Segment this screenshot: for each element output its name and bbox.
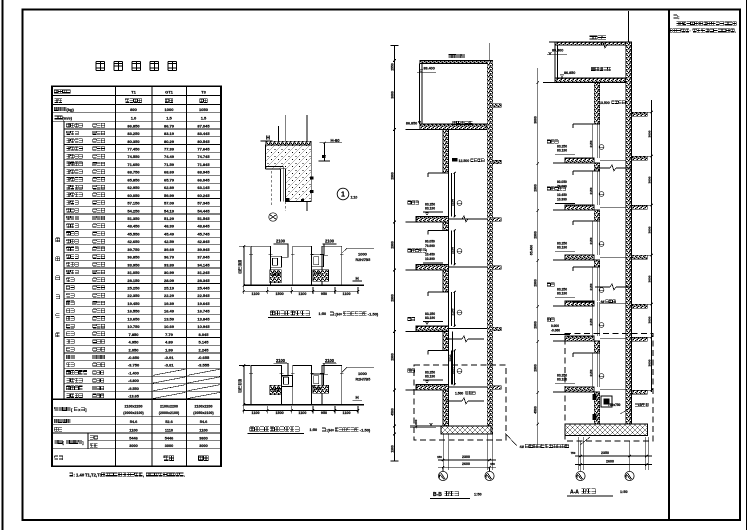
svg-text:1.500: 1.500: [455, 392, 463, 396]
svg-text:57.150: 57.150: [127, 201, 140, 206]
svg-text:2150: 2150: [451, 308, 455, 315]
svg-text:5446: 5446: [129, 436, 137, 440]
plan bottom dimension line: [244, 409, 358, 411]
svg-text:51.350: 51.350: [127, 216, 140, 221]
plan baseline wall line: [244, 404, 364, 406]
A-A floor slab 1: [565, 205, 594, 210]
svg-text:-1.400: -1.400: [128, 371, 139, 375]
svg-text:22.545: 22.545: [197, 293, 210, 298]
svg-text:750x750: 750x750: [608, 403, 621, 407]
svg-text:19.39: 19.39: [164, 301, 175, 306]
plan bottom dimension line: [244, 290, 358, 292]
table row 27: 四层: [64, 329, 221, 331]
svg-text:(kg): (kg): [67, 107, 75, 112]
table summary rows: [52, 398, 221, 400]
svg-text:3000: 3000: [647, 359, 651, 366]
svg-text:77.645: 77.645: [197, 147, 210, 152]
B-B door frame 2~27层: [428, 231, 449, 235]
svg-text:25.250: 25.250: [127, 286, 140, 291]
svg-text:1:10: 1:10: [351, 196, 358, 200]
svg-text:77.39: 77.39: [164, 147, 175, 152]
svg-text:750: 750: [571, 451, 576, 455]
svg-text:(2000x2100): (2000x2100): [123, 411, 144, 415]
svg-text:-0.655: -0.655: [198, 355, 210, 360]
svg-text:2900: 2900: [534, 231, 538, 239]
pit note leader left: [505, 433, 517, 446]
svg-text:10.450: 10.450: [557, 193, 567, 197]
svg-text:65.79: 65.79: [164, 177, 175, 182]
svg-text:57.09: 57.09: [164, 201, 175, 206]
svg-text:2150: 2150: [451, 247, 455, 254]
svg-text:2600: 2600: [606, 459, 614, 463]
svg-text:57.345: 57.345: [197, 201, 210, 206]
svg-text:71.650: 71.650: [127, 162, 140, 167]
svg-text:1.5: 1.5: [201, 116, 207, 121]
svg-text:(2050x2100): (2050x2100): [193, 411, 214, 415]
table row 23: 八层: [64, 298, 221, 300]
svg-text:22.350: 22.350: [127, 293, 140, 298]
svg-text:3000: 3000: [647, 275, 651, 282]
svg-text:71.59: 71.59: [164, 162, 175, 167]
svg-text:2350: 2350: [601, 451, 609, 455]
svg-text:3000: 3000: [199, 444, 207, 448]
A-A machine floor slab: [555, 78, 626, 83]
svg-text:54.6: 54.6: [200, 419, 208, 424]
table row 25: 六层: [64, 313, 221, 315]
svg-text:3000: 3000: [165, 444, 173, 448]
svg-text:4.89: 4.89: [165, 340, 174, 345]
table row 13: 十八层: [64, 221, 221, 223]
svg-text:83.445: 83.445: [197, 131, 210, 136]
svg-text:1:50: 1:50: [310, 428, 318, 432]
svg-text:25.445: 25.445: [197, 286, 210, 291]
svg-text:: 1.4#: : 1.4#: [74, 473, 85, 478]
A-A left dim line: [537, 68, 539, 448]
B-B right side stub upper: [493, 104, 502, 108]
svg-text:2900: 2900: [534, 321, 538, 329]
B-B left wall segment above floor 2层: [443, 270, 449, 292]
svg-text:950: 950: [321, 292, 327, 296]
svg-text:86.79: 86.79: [164, 123, 175, 128]
svg-text:42.845: 42.845: [197, 239, 210, 244]
svg-text:0.000: 0.000: [551, 324, 559, 328]
B-B slab1 break line to right wall: [448, 218, 462, 220]
svg-text:B-B: B-B: [433, 492, 442, 498]
A-A door frame 0: [573, 124, 594, 128]
svg-text:2100: 2100: [325, 358, 335, 363]
svg-text:·: ·: [690, 29, 691, 34]
B-B floor slab 首层: [416, 385, 449, 391]
svg-text:2150: 2150: [589, 237, 593, 244]
plan shaft rect 1: [251, 365, 282, 404]
A-A right floor stub at y=112: [632, 112, 648, 116]
plan door sill detail A: [270, 270, 282, 283]
B-B wall below last floor: [443, 390, 449, 426]
B-B left wall segment above floor 2~27层: [443, 222, 449, 231]
table row 15: 十六层: [64, 236, 221, 238]
svg-text:66.045: 66.045: [197, 177, 210, 182]
title-block divider: [668, 10, 670, 521]
svg-text:1500: 1500: [275, 292, 283, 296]
table row 4: 二十七层: [64, 151, 221, 153]
B-B pit floor slab: [441, 426, 491, 434]
svg-text:54.250: 54.250: [127, 208, 140, 213]
A-A floor name 2~27层: [547, 187, 565, 190]
svg-text:54.445: 54.445: [197, 208, 210, 213]
B-B left dim line: [394, 46, 396, 462]
svg-text:R2H/7B5: R2H/7B5: [356, 258, 371, 262]
svg-text:1: 1: [341, 192, 345, 199]
svg-text:2600: 2600: [462, 462, 470, 466]
svg-text:2.050: 2.050: [128, 347, 139, 352]
svg-text:65.850: 65.850: [127, 177, 140, 182]
table row 17: 十四层: [64, 252, 221, 254]
outer left trim line: [2, 0, 4, 530]
svg-text:83.190: 83.190: [425, 316, 435, 320]
svg-text:12.500: 12.500: [459, 159, 470, 163]
elevator table grid: [52, 86, 221, 466]
svg-text:48.645: 48.645: [197, 224, 210, 229]
svg-text:4#: 4#: [601, 300, 605, 304]
svg-text:1100: 1100: [343, 292, 351, 296]
svg-text:10.945: 10.945: [197, 324, 210, 329]
svg-text:2150: 2150: [589, 318, 593, 325]
svg-text:28.150: 28.150: [127, 278, 140, 283]
svg-text:42.650: 42.650: [127, 239, 140, 244]
svg-text:-9.550: -9.550: [128, 387, 139, 391]
B-B roof slab: [420, 61, 493, 64]
svg-text:T1: T1: [131, 90, 136, 95]
svg-text:34.145: 34.145: [197, 262, 210, 267]
svg-text:79.990: 79.990: [425, 244, 435, 248]
svg-text:30.99: 30.99: [164, 270, 175, 275]
B-B bottom dims: [438, 459, 496, 461]
A-A right floor stub at y=255: [632, 255, 648, 259]
A-A dashed detail box: [565, 334, 653, 442]
svg-text:(2000x2100): (2000x2100): [159, 411, 180, 415]
table row 35: 电梯底坑: [64, 391, 221, 393]
svg-text:4500: 4500: [390, 408, 394, 416]
plan door sill detail B: [313, 270, 329, 282]
table body floor rows: [63, 121, 65, 399]
svg-text:68.945: 68.945: [197, 170, 210, 175]
svg-text:19.645: 19.645: [197, 301, 210, 306]
svg-text:39.945: 39.945: [197, 247, 210, 252]
svg-text:71.845: 71.845: [197, 162, 210, 167]
B-B roof label: [448, 54, 465, 58]
svg-text:74.745: 74.745: [197, 154, 210, 159]
svg-text:-1.50): -1.50): [368, 312, 379, 317]
A-A right wall: [626, 42, 632, 424]
svg-text:3000: 3000: [647, 130, 651, 137]
B-B machine floor slab: [420, 124, 487, 130]
svg-text:4500: 4500: [534, 406, 538, 414]
svg-text:83.190: 83.190: [557, 292, 567, 296]
svg-text:89.400: 89.400: [424, 66, 435, 70]
table row 22: 九层: [64, 290, 221, 292]
B-B door frame 2层: [428, 292, 449, 296]
A-A wall below last floor: [594, 392, 600, 424]
svg-text:1000: 1000: [358, 371, 368, 376]
A-A floor slab 5: [565, 387, 594, 392]
A-A floor name 28层: [547, 140, 558, 143]
svg-text:25.19: 25.19: [164, 286, 175, 291]
A-A floor slab 4: [565, 336, 594, 341]
svg-text:5446: 5446: [165, 436, 173, 440]
A-A right floor stub at y=205: [632, 205, 648, 209]
svg-text:83.190: 83.190: [557, 246, 567, 250]
plan right leader labels: [342, 367, 374, 372]
svg-text:80.350: 80.350: [127, 139, 140, 144]
svg-text:63.145: 63.145: [197, 185, 210, 190]
svg-text:39.750: 39.750: [127, 247, 140, 252]
svg-text:-1.50): -1.50): [360, 428, 371, 433]
table footnote: [69, 473, 73, 477]
svg-text:16.49: 16.49: [164, 309, 175, 314]
svg-text:65.400: 65.400: [530, 245, 534, 255]
B-B right side stub machine level: [493, 160, 502, 164]
svg-text:1100: 1100: [252, 292, 260, 296]
table row 18: 十三层: [64, 259, 221, 261]
svg-text:54.6: 54.6: [130, 419, 138, 424]
svg-text:2100x2200: 2100x2200: [125, 405, 143, 409]
svg-text:80.545: 80.545: [197, 139, 210, 144]
svg-text:51.545: 51.545: [197, 216, 210, 221]
svg-text:51.29: 51.29: [164, 216, 175, 221]
detail 1 wall lines above: [278, 126, 280, 141]
svg-text:1000: 1000: [165, 107, 175, 112]
svg-text:3000: 3000: [647, 316, 651, 323]
table row 16: 十五层: [64, 244, 221, 246]
svg-text:45.745: 45.745: [197, 231, 210, 236]
B-B floor slab 2层: [416, 326, 449, 332]
table row 9: 二十二层: [64, 190, 221, 192]
table row 7: 二十四层: [64, 174, 221, 176]
svg-text:1:50: 1:50: [620, 490, 628, 494]
svg-text:60.050: 60.050: [127, 193, 140, 198]
svg-text:2900: 2900: [534, 364, 538, 372]
notes block: [673, 15, 677, 19]
svg-text::(H=: :(H=: [326, 428, 335, 433]
svg-text:3000: 3000: [129, 444, 137, 448]
svg-text:83.190: 83.190: [425, 375, 435, 379]
A-A pit leader texts: [635, 403, 648, 406]
svg-text:45.550: 45.550: [127, 231, 140, 236]
A-A floor name 首层: [547, 318, 554, 321]
svg-text:2100x2200: 2100x2200: [195, 405, 213, 409]
B-B floor name 2~27层: [408, 249, 426, 252]
B-B door frame 首层: [428, 351, 449, 355]
svg-text:1100: 1100: [129, 427, 137, 432]
table vertical label column: [56, 238, 60, 242]
table row 8: 二十三层: [64, 182, 221, 184]
svg-text:8.045: 8.045: [198, 332, 209, 337]
B-B axis bubbles: [442, 467, 444, 471]
A-A shaft break lower: [595, 286, 610, 288]
A-A door frame 2: [573, 221, 594, 225]
B-B floor name 首层: [408, 369, 415, 372]
svg-text:68.750: 68.750: [127, 170, 140, 175]
svg-text:83.190: 83.190: [425, 207, 435, 211]
detail 1 corner walls: [266, 145, 312, 202]
svg-text:28.345: 28.345: [197, 278, 210, 283]
A-A left wall segment 0: [594, 83, 600, 125]
svg-text:2150: 2150: [451, 199, 455, 206]
svg-text:62.89: 62.89: [164, 185, 175, 190]
svg-text:2100: 2100: [325, 239, 335, 244]
A-A left wall segment 3: [594, 260, 600, 267]
table row 24: 七层: [64, 306, 221, 308]
B-B floor name 28层: [408, 201, 419, 204]
B-B axis line above: [489, 43, 491, 61]
A-A door frame 5: [573, 353, 594, 357]
A-A right floor stub at y=304: [632, 304, 648, 308]
svg-text:1100: 1100: [252, 411, 260, 415]
svg-text:-0.060: -0.060: [551, 328, 560, 332]
svg-text:39.69: 39.69: [164, 247, 175, 252]
svg-text:86.850: 86.850: [406, 122, 417, 126]
svg-text:37.045: 37.045: [197, 255, 210, 260]
svg-text:74.49: 74.49: [164, 154, 175, 159]
plan door sill detail B: [313, 385, 329, 393]
table row 12: 十九层: [64, 213, 221, 215]
table row 32: 一层: [64, 367, 221, 369]
svg-text:T3: T3: [201, 90, 206, 95]
A-A right floor stub at y=156: [632, 156, 648, 160]
svg-text:87.045: 87.045: [197, 123, 210, 128]
svg-text:77.450: 77.450: [127, 147, 140, 152]
plan baseline wall line: [244, 284, 364, 286]
svg-text:16.745: 16.745: [197, 309, 210, 314]
svg-text:68.69: 68.69: [164, 170, 175, 175]
table row 30: 夹层: [64, 352, 221, 354]
table row 19: 十二层: [64, 267, 221, 269]
svg-text:3000: 3000: [647, 226, 651, 233]
detail 1 top slab band: [266, 141, 312, 145]
A-A right floor stub at y=390: [632, 390, 648, 394]
svg-text:-4.800: -4.800: [128, 379, 139, 383]
svg-text:10.750: 10.750: [127, 324, 140, 329]
svg-text:86.850: 86.850: [564, 71, 575, 75]
svg-text:3000: 3000: [534, 116, 538, 124]
svg-text:10.69: 10.69: [164, 324, 175, 329]
svg-text:4.950: 4.950: [128, 340, 139, 345]
table row 11: 二十层: [64, 205, 221, 207]
table row 2: 屋面层: [64, 136, 221, 138]
table row 14: 十七层: [64, 228, 221, 230]
plan 1 caption: [270, 311, 309, 316]
svg-text:33.950: 33.950: [127, 262, 140, 267]
svg-text:36.850: 36.850: [127, 255, 140, 260]
svg-text:2900: 2900: [390, 294, 394, 302]
plan right leader labels: [342, 248, 374, 253]
A-A floor slab 3: [565, 301, 594, 306]
svg-text:13.59: 13.59: [164, 316, 175, 321]
B-B left wall segment above floor 首层: [443, 332, 449, 351]
plan shaft rect 3: [322, 246, 342, 285]
svg-text:31.050: 31.050: [127, 270, 140, 275]
svg-text:10.450: 10.450: [425, 253, 435, 257]
svg-text:2150: 2150: [589, 187, 593, 194]
svg-text:1100: 1100: [298, 292, 306, 296]
svg-text:1110: 1110: [165, 427, 173, 432]
svg-text:1000: 1000: [314, 272, 322, 276]
A-A roof label: [589, 36, 606, 40]
svg-text:1:50: 1:50: [319, 312, 327, 316]
svg-text:-0.850: -0.850: [128, 355, 140, 360]
A-A axis line above: [628, 11, 630, 42]
B-B right side stub 28层: [493, 218, 502, 222]
svg-text:1100: 1100: [343, 411, 351, 415]
svg-text:19.450: 19.450: [127, 301, 140, 306]
pit note leader right: [580, 437, 590, 445]
svg-text:10.390: 10.390: [425, 257, 435, 261]
svg-text:-3.81: -3.81: [164, 363, 174, 368]
svg-text:13.845: 13.845: [197, 316, 210, 321]
svg-text:31.245: 31.245: [197, 270, 210, 275]
svg-text:1100: 1100: [298, 411, 306, 415]
B-B machine room left wall: [419, 64, 421, 125]
table row 1: 电梯机房: [64, 128, 221, 130]
svg-text:1000: 1000: [358, 252, 368, 257]
detail 1 door frame corner lines: [266, 167, 284, 202]
B-B bottom extension lines: [442, 434, 444, 470]
svg-text:22.29: 22.29: [164, 293, 175, 298]
svg-text:2100: 2100: [276, 358, 286, 363]
svg-text:R2H/7B5: R2H/7B5: [356, 377, 371, 381]
svg-text:2900: 2900: [390, 241, 394, 249]
table row 29: 二层: [64, 344, 221, 346]
A-A floor slab 2: [565, 255, 594, 260]
A-A right floor stub at y=337: [632, 337, 648, 341]
svg-text:150: 150: [437, 455, 442, 459]
B-B right side stub 首层: [493, 386, 502, 390]
B-B shaft break lower (pit): [446, 400, 462, 402]
table row 28: 三层: [64, 337, 221, 339]
table title 电梯明细表: [96, 61, 104, 70]
svg-text:36.79: 36.79: [164, 255, 175, 260]
svg-text:H: H: [356, 276, 359, 281]
plan door frame box A: [271, 256, 282, 267]
plan shaft rect 2: [293, 365, 312, 404]
table row 21: 十层: [64, 283, 221, 285]
svg-text:1.0: 1.0: [131, 116, 137, 121]
A-A left wall segment 5: [594, 341, 600, 353]
svg-text:-0.91: -0.91: [164, 355, 174, 360]
outer right trim line: [746, 0, 748, 530]
svg-text:80.050: 80.050: [425, 240, 435, 244]
svg-text:2900: 2900: [534, 184, 538, 192]
A-A door frame 1: [573, 171, 594, 175]
B-B pit left elevation: [410, 425, 443, 427]
A-A roof slab: [555, 42, 629, 45]
plan left height dim: [243, 246, 245, 285]
svg-text:7.850: 7.850: [128, 332, 139, 337]
plan door frame box B: [312, 374, 324, 386]
table header rows: [54, 90, 70, 94]
svg-text:2150: 2150: [589, 140, 593, 147]
svg-text:2900: 2900: [390, 172, 394, 180]
A-A door frame 3: [573, 267, 594, 271]
svg-text:83.250: 83.250: [127, 131, 140, 136]
B-B right wall: [487, 61, 493, 435]
svg-text:54.19: 54.19: [164, 208, 175, 213]
svg-text:1.99: 1.99: [165, 347, 174, 352]
svg-text:1050: 1050: [199, 107, 209, 112]
svg-text:1100: 1100: [199, 427, 207, 432]
table row 3: 二十八层: [64, 144, 221, 146]
B-B dashed detail box: [414, 365, 506, 440]
